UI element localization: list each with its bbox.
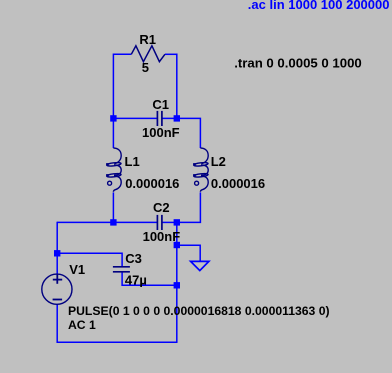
wire C1 right lead to L2 column (162, 118, 200, 148)
wire left rail top (R1 to L1) (112, 54, 114, 149)
capacitor C3 (113, 267, 130, 272)
svg-text:L1: L1 (125, 154, 140, 169)
voltage source V1 (42, 274, 72, 304)
capacitor C2 (157, 215, 162, 230)
wire L1 bottom (112, 192, 114, 222)
svg-text:5: 5 (142, 60, 149, 75)
wire right rail down (176, 222, 178, 342)
inductor L1 (107, 148, 122, 192)
junction ground branch (174, 242, 180, 248)
wire bottom return (57, 341, 178, 343)
svg-text:0.000016: 0.000016 (211, 176, 265, 191)
junction C2 left (110, 219, 116, 225)
svg-text:100nF: 100nF (142, 125, 180, 140)
svg-text:C3: C3 (125, 251, 142, 266)
wire C3 top lead (57, 253, 122, 267)
junction V1 top (54, 250, 60, 256)
svg-text:R1: R1 (139, 32, 156, 47)
ground (191, 261, 209, 270)
svg-text:100nF: 100nF (143, 229, 181, 244)
inductor L2 (194, 148, 209, 192)
svg-text:0.000016: 0.000016 (125, 176, 179, 191)
resistor R1 (131, 46, 165, 62)
wire L2 bottom (177, 192, 201, 222)
wire right rail top (R1 to C1 node) (176, 54, 178, 119)
wire R1 right lead (165, 53, 177, 55)
junction C3 bottom (174, 282, 180, 288)
junction C1 right (174, 115, 180, 121)
wire left branch down to V1 (56, 222, 58, 274)
svg-text:.ac lin 1000 100 200000: .ac lin 1000 100 200000 (248, 0, 390, 12)
wire R1 left lead (113, 53, 131, 55)
svg-text:.tran 0 0.0005 0 1000: .tran 0 0.0005 0 1000 (234, 56, 362, 71)
wire ground branch (177, 245, 200, 261)
capacitor C1 (157, 111, 162, 126)
wire V1 bottom (56, 304, 58, 343)
wire C1 left lead (113, 117, 156, 119)
wire C3 bottom lead (122, 272, 177, 286)
svg-text:C2: C2 (153, 200, 170, 215)
wire C2 right lead (162, 221, 176, 223)
junction C1 left (110, 115, 116, 121)
svg-text:L2: L2 (211, 154, 226, 169)
svg-text:47µ: 47µ (125, 273, 147, 288)
svg-text:AC 1: AC 1 (68, 318, 96, 332)
svg-text:PULSE(0 1 0 0 0 0.0000016818 0: PULSE(0 1 0 0 0 0.0000016818 0.000011363… (68, 304, 330, 318)
junction C2 right (174, 219, 180, 225)
svg-text:C1: C1 (152, 97, 169, 112)
wire C2 row left (57, 221, 157, 223)
svg-text:V1: V1 (69, 262, 85, 277)
